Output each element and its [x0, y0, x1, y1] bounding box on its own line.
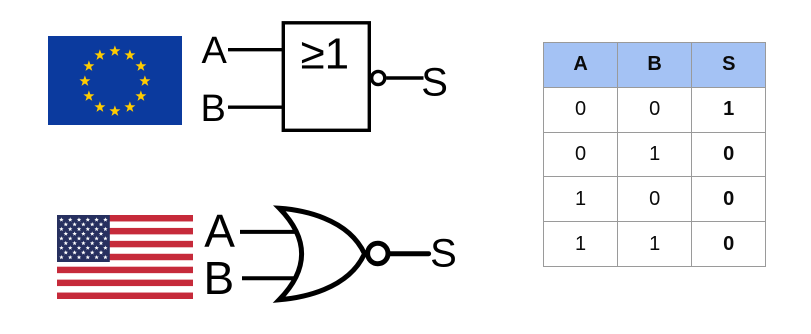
truth table	[543, 42, 766, 267]
input label B (ANSI)	[204, 252, 235, 304]
svg-text:≥1: ≥1	[300, 29, 349, 78]
output label S (ANSI)	[430, 232, 457, 276]
IEC NOR gate body (&#8805;1 box)	[283, 23, 369, 131]
output label S (IEC)	[421, 60, 448, 104]
inversion bubble (ANSI output)	[368, 243, 388, 263]
wire B to IEC gate	[228, 105, 284, 108]
wire bubble to S (ANSI)	[390, 251, 428, 256]
wire B to ANSI gate	[242, 276, 305, 280]
wire bubble to S (IEC)	[386, 76, 423, 79]
US flag	[57, 215, 193, 299]
svg-text:S: S	[430, 232, 457, 276]
wire A to ANSI gate	[240, 230, 305, 234]
svg-text:A: A	[202, 30, 228, 72]
svg-text:B: B	[204, 252, 235, 304]
svg-text:A: A	[204, 205, 235, 257]
EU flag	[48, 36, 182, 125]
inversion bubble (IEC output)	[372, 71, 385, 84]
input label B (IEC)	[201, 88, 226, 130]
input label A (ANSI)	[204, 205, 235, 257]
input label A (IEC)	[202, 30, 228, 72]
wire A to IEC gate	[228, 48, 284, 51]
svg-text:B: B	[201, 88, 226, 130]
svg-text:S: S	[421, 60, 448, 104]
ANSI NOR gate body (OR shape)	[279, 208, 364, 299]
